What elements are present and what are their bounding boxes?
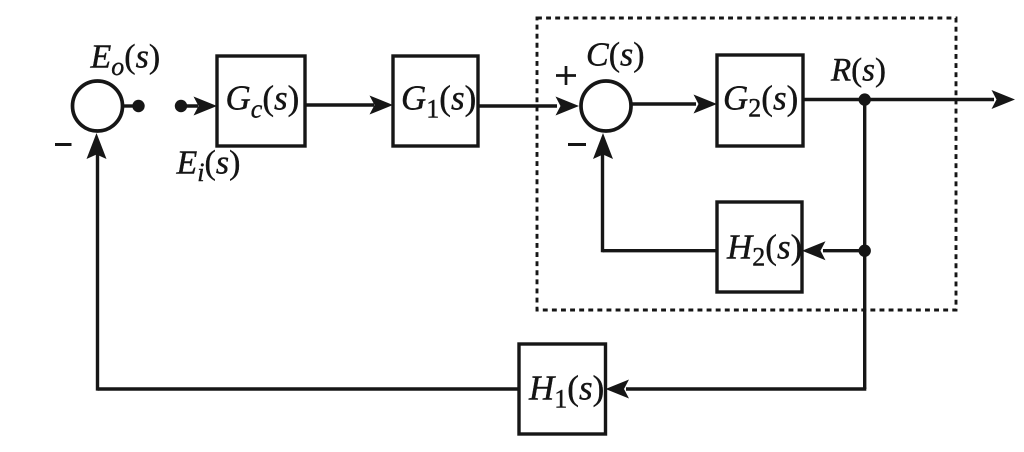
svg-text:G2(s): G2(s) <box>723 79 798 123</box>
arrowhead into H2 <box>802 241 826 260</box>
block H2(s) <box>717 202 802 292</box>
wire S2 to G2 <box>631 102 696 105</box>
svg-text:Ei(s): Ei(s) <box>176 145 241 188</box>
arrowhead into S2 bottom <box>593 133 613 159</box>
block G1(s) <box>393 56 478 146</box>
node dot H2 tap <box>859 245 871 257</box>
arrowhead output <box>992 90 1016 109</box>
arrowhead into G2 <box>694 95 718 114</box>
arrowhead into Gc <box>194 97 218 116</box>
wire G2 to output <box>803 98 994 101</box>
wire to H1 <box>626 387 866 390</box>
node dot R(s) <box>859 93 871 105</box>
plus sign at S2 <box>556 74 576 77</box>
svg-text:C(s): C(s) <box>586 37 645 74</box>
dashed box (inner loop boundary) <box>537 18 956 310</box>
wire S1 output stub <box>123 104 139 107</box>
block H1(s) <box>519 344 606 434</box>
minus sign at S1 <box>55 143 72 146</box>
wire H2 to corner <box>603 249 718 252</box>
arrowhead into G1 <box>370 96 394 115</box>
wire G1 to S2 <box>478 104 557 107</box>
wire Ei input to Gc <box>181 104 198 107</box>
wire R node down to H2 level <box>863 100 866 251</box>
svg-text:G1(s): G1(s) <box>401 79 476 124</box>
wire left up to S1 <box>96 152 99 391</box>
wire node to H2 <box>823 249 865 252</box>
arrowhead into S2 <box>556 97 580 116</box>
block Gc(s) <box>217 56 305 146</box>
summing junction S2 <box>581 81 631 131</box>
wire H1 to left <box>98 387 520 390</box>
summing junction S1 <box>73 81 123 131</box>
block G2(s) <box>717 55 803 146</box>
minus sign at S2 <box>568 143 586 146</box>
arrowhead into S1 bottom <box>87 133 107 159</box>
svg-text:Gc(s): Gc(s) <box>226 79 300 124</box>
node dot S1 output <box>132 100 144 112</box>
wire corner up to S2 <box>601 152 604 252</box>
arrowhead into H1 <box>606 380 630 399</box>
svg-text:Eo(s): Eo(s) <box>90 39 161 81</box>
wire Gc to G1 <box>305 103 374 106</box>
node dot Ei input <box>175 100 187 112</box>
svg-text:R(s): R(s) <box>830 52 886 88</box>
wire R node down to H1 level <box>863 251 866 389</box>
